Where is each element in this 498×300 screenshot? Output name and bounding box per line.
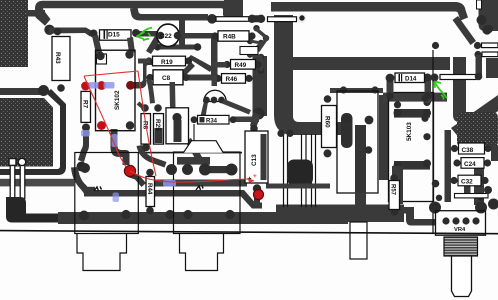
pad box1 big xyxy=(77,162,87,172)
wire R49 stub xyxy=(212,62,227,68)
svg-text:+: + xyxy=(253,173,257,180)
wire vr4 top xyxy=(464,182,471,196)
wire C13 to band xyxy=(254,190,260,206)
pad top right corner xyxy=(477,15,487,25)
pad blob bump xyxy=(482,25,491,34)
svg-text:R46: R46 xyxy=(226,76,238,83)
wire under C32 xyxy=(474,168,484,205)
capacitor C22 xyxy=(157,24,182,46)
svg-text:R43: R43 xyxy=(54,52,61,64)
svg-text:VR4: VR4 xyxy=(454,227,466,233)
wire to shield pad xyxy=(0,88,40,95)
green arrow 2 xyxy=(435,82,448,100)
resistor R57 vertical xyxy=(389,174,400,216)
svg-text:R60: R60 xyxy=(324,116,331,128)
wire bracket elbow to SK103 xyxy=(383,93,447,102)
copper pour block left shield xyxy=(0,98,53,167)
connector strip front line xyxy=(138,152,242,154)
svg-text:R8: R8 xyxy=(142,121,149,130)
red annotation outline xyxy=(84,71,254,182)
pad shield top xyxy=(38,85,49,96)
resistor R8 vertical xyxy=(141,104,151,151)
wire R34 to via xyxy=(233,117,259,123)
wire SK102 bottom to red node xyxy=(111,129,130,165)
wire right col vertical xyxy=(445,130,452,202)
svg-text:C24: C24 xyxy=(464,161,476,168)
wire red node to R44 xyxy=(128,172,146,187)
svg-text:R44: R44 xyxy=(146,183,153,195)
capacitor C38 xyxy=(451,143,492,154)
resistor R34 xyxy=(191,115,237,124)
white jumper top right a xyxy=(482,43,498,48)
pad jumper a xyxy=(474,42,481,49)
wire D15 to C22 xyxy=(134,31,160,37)
diag wire right edge xyxy=(451,95,498,139)
wire right edge below mass xyxy=(491,145,498,161)
pads column right mid xyxy=(421,95,430,141)
diode D14 xyxy=(386,73,439,103)
big bracket inner bar xyxy=(290,57,450,70)
wire node pad to bus xyxy=(71,167,89,194)
wire mass in J2 xyxy=(177,157,210,165)
diag wire top bar to pad xyxy=(453,16,477,45)
wire pad to D15 xyxy=(49,28,93,37)
wire x214 to Q1 xyxy=(212,76,218,86)
svg-text:D14: D14 xyxy=(405,75,417,82)
svg-text:SK102: SK102 xyxy=(114,90,121,110)
white jumper right of D14 xyxy=(440,75,476,80)
pad top-left rail xyxy=(44,25,54,35)
blue marker c xyxy=(81,130,90,137)
pad below C22 left xyxy=(154,43,161,50)
big bracket left vertical xyxy=(274,15,341,135)
copper mass right xyxy=(457,112,498,147)
blob capacitor mid xyxy=(287,160,313,186)
svg-text:R34: R34 xyxy=(206,119,218,125)
pad tr1 xyxy=(432,42,439,49)
resistor R4B xyxy=(211,31,255,41)
pot bushing xyxy=(444,237,478,256)
white jumper top right b xyxy=(482,52,498,57)
corner blob top-right xyxy=(479,0,498,31)
tiny rects top right xyxy=(477,0,482,9)
wire D15 to SK102 right xyxy=(127,37,135,53)
wire S below R8 xyxy=(137,145,167,168)
vertical wire pad to D14 row xyxy=(476,55,483,76)
top rail T xyxy=(35,1,231,26)
right edge mass upper xyxy=(486,58,498,78)
wire C22 to R4B xyxy=(180,33,216,39)
resistor R25 vertical xyxy=(154,104,164,144)
vertical wire x214 xyxy=(211,38,218,78)
dumbbell pads top xyxy=(250,15,263,22)
blue marker a xyxy=(89,82,99,89)
svg-text:R25: R25 xyxy=(154,119,161,131)
pad in bracket corner xyxy=(298,15,305,22)
bottom bus band xyxy=(58,212,348,224)
wire pad to C13 xyxy=(250,112,261,128)
pot VR4 xyxy=(429,180,488,235)
svg-text:C22: C22 xyxy=(160,33,172,40)
transformer box T1 xyxy=(138,103,194,152)
resistor R46 xyxy=(214,74,252,84)
wire R19 to x214 xyxy=(188,55,213,72)
wire D15 to SK102 left xyxy=(92,35,102,54)
pad in bracket xyxy=(299,15,306,22)
connector J2 outline xyxy=(174,152,241,271)
vertical wire x260 xyxy=(253,56,268,116)
wire mid bus upper xyxy=(152,180,247,187)
pad bracket bottom 2 xyxy=(286,130,293,137)
wire R7 to pad xyxy=(78,127,89,162)
relay SK102 box xyxy=(96,50,136,131)
svg-text:R19: R19 xyxy=(161,59,173,66)
white jumper top 1 xyxy=(216,17,249,22)
wire wrapping shield xyxy=(0,89,66,175)
resistor R49 xyxy=(223,60,261,70)
bottom bus band right part xyxy=(276,205,404,223)
white trace leg 2 over band xyxy=(20,166,25,199)
pads right lower xyxy=(484,186,492,194)
red highlight dot SK102 bottom-left xyxy=(97,121,106,130)
capacitor C24 xyxy=(453,158,491,169)
capacitor C13 xyxy=(245,125,268,193)
svg-text:C32: C32 xyxy=(461,179,473,186)
wire SK102 S-curve xyxy=(130,59,157,89)
resistor R7 vertical xyxy=(81,82,91,132)
big bracket right vertical xyxy=(453,57,466,122)
wire C22 left pad diagonal xyxy=(146,36,161,54)
bright red node dot J1 xyxy=(124,165,135,176)
svg-text:R7: R7 xyxy=(82,100,89,109)
hole pad P2 in shield (round) xyxy=(18,158,26,166)
blue marker e vertical xyxy=(113,193,120,203)
pad b xyxy=(371,86,378,93)
diag bundle above C8 xyxy=(173,62,195,84)
big right box outline xyxy=(432,50,434,234)
blue marker d vertical xyxy=(112,134,118,147)
red arrow head xyxy=(248,179,254,184)
wire S to VR4 xyxy=(400,207,436,226)
wire between B1 and SK103 xyxy=(379,95,388,180)
copper pour block top-left xyxy=(0,0,28,67)
hole pad P1 in shield (square) xyxy=(9,159,16,166)
red highlight dot node R7 top xyxy=(81,82,90,91)
capacitor C32 xyxy=(450,175,488,186)
svg-text:C13: C13 xyxy=(251,154,258,166)
blue marker b xyxy=(104,82,115,89)
pad J2 a xyxy=(166,164,177,175)
white jumper top 2 xyxy=(268,17,297,22)
red highlight dot node SK102 mid-left xyxy=(97,81,106,90)
svg-text:R4B: R4B xyxy=(223,34,236,41)
svg-text:D15: D15 xyxy=(108,32,120,39)
top rail B xyxy=(130,8,208,21)
svg-text:C38: C38 xyxy=(462,147,474,154)
pads column zigzag xyxy=(247,25,269,74)
thin wire mid right xyxy=(266,184,330,189)
wire bus lower left hook xyxy=(84,187,95,193)
wire C8 down to R25 xyxy=(147,79,156,104)
pad on band 2 xyxy=(121,210,130,219)
svg-text:5K103: 5K103 xyxy=(406,122,413,141)
wire below C22 xyxy=(155,45,198,50)
pad box1 xyxy=(80,163,90,173)
bright red node dot C13 minus xyxy=(254,190,264,200)
svg-text:R57: R57 xyxy=(390,184,396,196)
resistor R19 xyxy=(145,56,192,66)
pad on band 3 xyxy=(165,210,174,219)
green arrow 1 xyxy=(137,28,153,41)
wire rail B down to C22 bar xyxy=(179,20,185,46)
pad on band 1 xyxy=(79,211,89,221)
transistor Q1 xyxy=(203,90,251,114)
pad end of rail B xyxy=(207,14,217,24)
wire block stub top-left xyxy=(26,10,45,17)
dumbbell pads J2 xyxy=(199,164,238,176)
pad on band 5 xyxy=(225,210,234,219)
pad on band 4 xyxy=(183,210,192,219)
node mark jn1 xyxy=(94,187,102,192)
board bottom edge xyxy=(0,230,498,235)
pad bracket bottom 1 xyxy=(277,130,284,137)
connector J1 outline xyxy=(75,153,139,271)
switch SK103 box xyxy=(389,93,434,202)
resistor R60 vertical xyxy=(322,95,337,157)
pad jumper b xyxy=(474,51,481,58)
elbow rail T right xyxy=(224,0,243,17)
gray bus band left xyxy=(0,179,74,187)
capacitor C8 xyxy=(146,70,189,85)
trapezoid bump xyxy=(183,141,223,153)
node mark jn2 xyxy=(196,186,203,191)
component legs mid-right xyxy=(284,134,316,207)
wire R19 stub left xyxy=(138,59,150,64)
ground L-trace bottom-left xyxy=(6,197,61,223)
diode D15 xyxy=(90,29,141,40)
wire diag T1 to J2 xyxy=(185,138,202,160)
footprint pads small rect xyxy=(240,47,258,55)
wire C8 to R46 xyxy=(186,75,218,81)
resistor R43 vertical xyxy=(52,28,70,92)
wire bus lower xyxy=(84,190,240,197)
pad after jumper xyxy=(475,73,483,81)
wire SK103 to band xyxy=(392,166,403,204)
wire C8 down to T1 xyxy=(170,82,176,108)
big bracket top bar xyxy=(271,2,468,21)
shaft connector mid xyxy=(350,222,367,259)
svg-text:R49: R49 xyxy=(235,62,247,69)
pad below C22 right xyxy=(194,43,202,51)
blue marker f xyxy=(163,180,176,187)
wire top of tall boxes xyxy=(330,88,383,93)
pot shaft xyxy=(452,256,472,297)
pad a xyxy=(340,86,347,93)
big pad x260 xyxy=(253,108,265,120)
white trace leg 1 over band xyxy=(10,166,15,199)
pad J2 b xyxy=(182,164,193,175)
pad right edge xyxy=(485,25,493,33)
dark red dot SK102 mid-right xyxy=(126,81,135,90)
svg-text:C8: C8 xyxy=(162,75,171,82)
wire Q1 leg to R34 xyxy=(201,99,209,117)
resistor R44 vertical xyxy=(146,169,155,215)
tall box B1 xyxy=(337,91,378,206)
